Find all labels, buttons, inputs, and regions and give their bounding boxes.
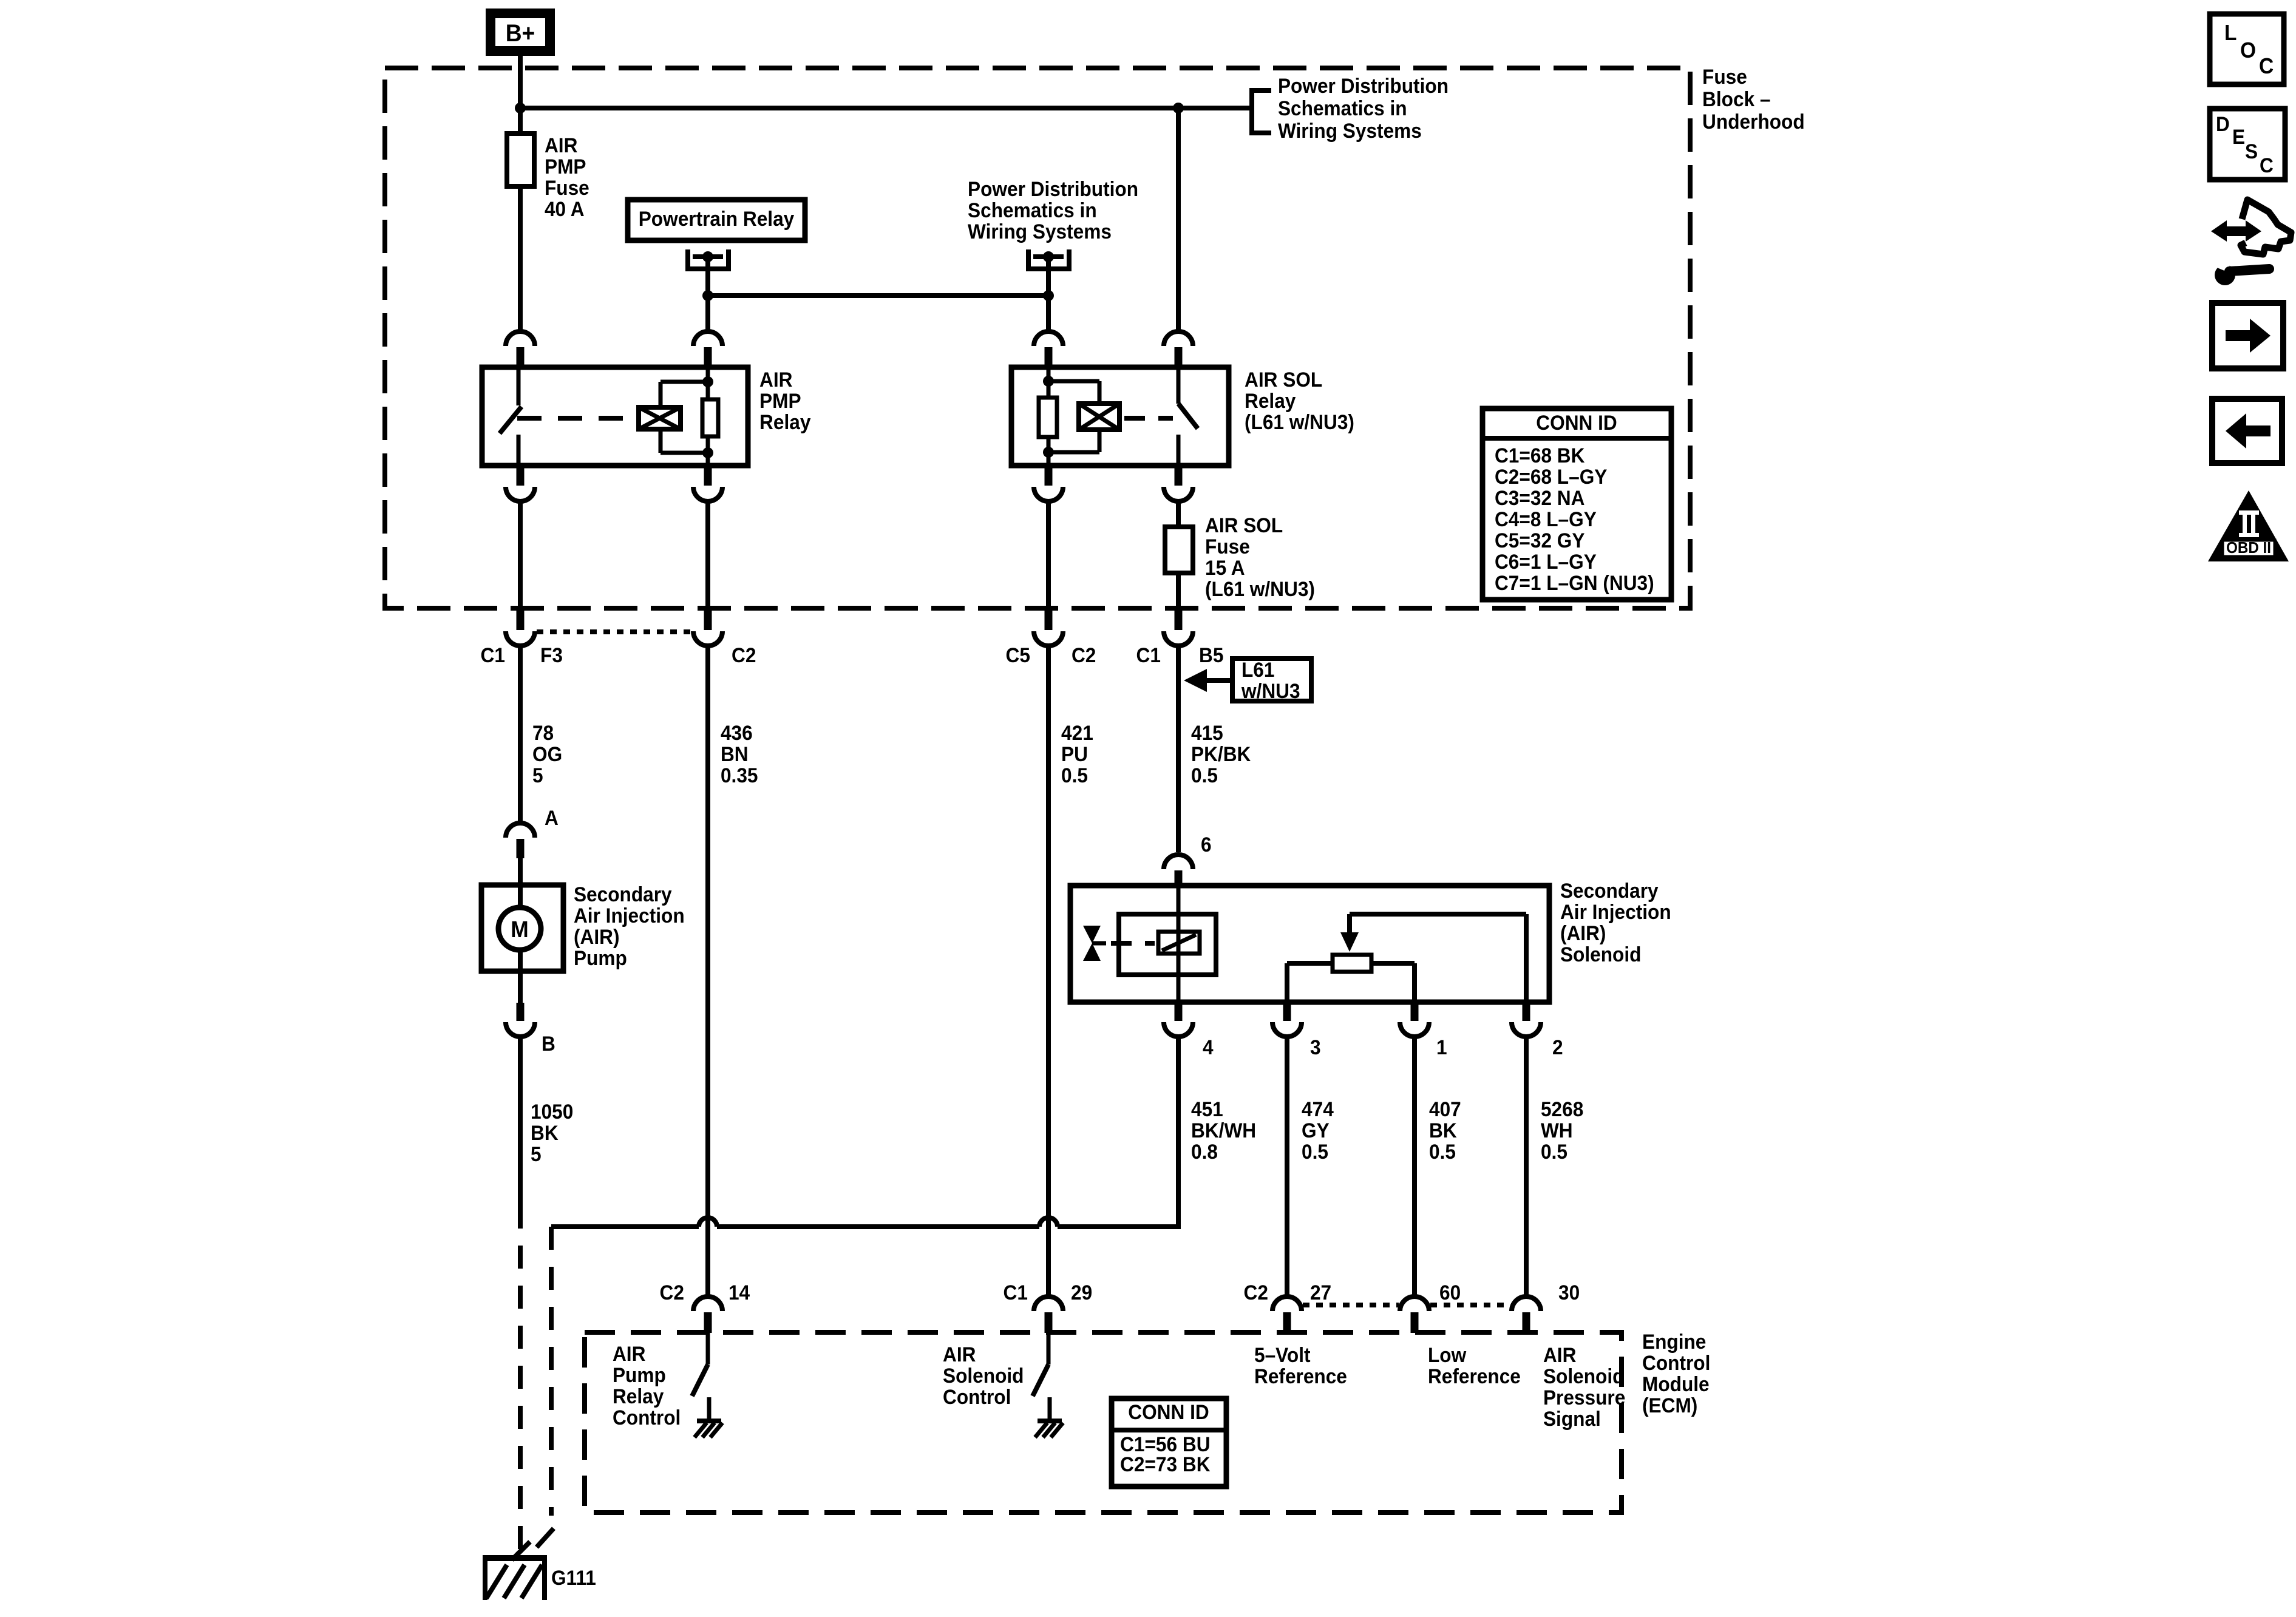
- wire4 down to AIR SOL relay: [1176, 108, 1181, 330]
- svg-text:GY: GY: [1302, 1119, 1330, 1142]
- svg-text:1050: 1050: [531, 1100, 573, 1123]
- branch fork under middle Power Distribution callout: [1026, 249, 1072, 271]
- pin label 4: [1203, 1036, 1214, 1059]
- wire junction rail to AIR SOL relay side: [708, 293, 1048, 298]
- wire1 to AIR pump: [518, 647, 523, 822]
- pin label 27: [1310, 1281, 1331, 1304]
- svg-text:B: B: [542, 1032, 555, 1055]
- svg-text:C1: C1: [1004, 1281, 1028, 1304]
- svg-text:Power Distribution: Power Distribution: [1278, 74, 1449, 97]
- svg-text:30: 30: [1558, 1281, 1580, 1304]
- connector wire2 at fuse block exit: [693, 611, 722, 646]
- switch in AIR SOL relay: [1178, 370, 1198, 463]
- svg-text:0.8: 0.8: [1191, 1140, 1218, 1163]
- svg-text:BK: BK: [1429, 1119, 1457, 1142]
- svg-text:Fuse: Fuse: [545, 176, 589, 199]
- connector ECM pin 27 (5-volt reference): [1272, 1297, 1302, 1333]
- connector arc wire4 out of AIR SOL relay: [1164, 466, 1193, 501]
- svg-text:Fuse: Fuse: [1702, 65, 1747, 88]
- svg-text:Air Injection: Air Injection: [1560, 900, 1671, 923]
- wire3 run to ECM: [1046, 647, 1051, 1295]
- svg-text:AIR: AIR: [1543, 1343, 1577, 1366]
- dotted connector link C1-F3 to C2: [537, 629, 691, 634]
- resistor in AIR SOL relay: [1039, 367, 1057, 466]
- svg-text:(AIR): (AIR): [1560, 921, 1606, 944]
- wire hop over wire2: [699, 1218, 717, 1227]
- pin label 3: [1310, 1036, 1321, 1059]
- relay coil actuator dashed line (AIR SOL): [1124, 416, 1173, 421]
- svg-text:Pump: Pump: [613, 1363, 666, 1386]
- label 5-Volt Reference: [1254, 1343, 1347, 1388]
- svg-text:AIR: AIR: [613, 1342, 646, 1365]
- svg-text:Fuse: Fuse: [1205, 535, 1250, 558]
- arrow L61 callout to wire4: [1184, 669, 1232, 692]
- svg-text:(L61 w/NU3): (L61 w/NU3): [1205, 577, 1315, 600]
- solenoid coil inner box: [1119, 914, 1216, 975]
- svg-text:O: O: [2240, 39, 2256, 63]
- svg-text:Low: Low: [1428, 1343, 1467, 1366]
- dotted link ECM pins 60-30: [1430, 1303, 1510, 1307]
- svg-text:27: 27: [1310, 1281, 1331, 1304]
- svg-text:S: S: [2245, 140, 2258, 163]
- label Fuse Block - Underhood: [1702, 65, 1805, 133]
- wire label 415 PK/BK 0.5: [1191, 721, 1251, 787]
- svg-text:C: C: [2260, 154, 2274, 177]
- pin label C2 (ECM 27): [1244, 1281, 1268, 1304]
- wire1 pump to ground run: [518, 1038, 523, 1205]
- wire B+ to AIR PMP fuse: [518, 56, 523, 135]
- potentiometer in solenoid: [1333, 955, 1371, 972]
- svg-text:0.5: 0.5: [1191, 764, 1218, 787]
- svg-text:Wiring Systems: Wiring Systems: [968, 220, 1112, 243]
- svg-text:A: A: [545, 806, 559, 829]
- svg-text:C5=32 GY: C5=32 GY: [1495, 529, 1585, 552]
- connector pin 3 out of solenoid: [1272, 1002, 1302, 1037]
- label Low Reference: [1428, 1343, 1521, 1388]
- connector pin 2 out of solenoid: [1512, 1002, 1541, 1037]
- svg-text:Relay: Relay: [613, 1385, 664, 1408]
- wire fuse to AIR PMP relay: [518, 186, 523, 330]
- pin label C2 (wire3): [1072, 643, 1096, 666]
- wire4 to AIR solenoid: [1176, 647, 1181, 852]
- svg-text:78: 78: [532, 721, 554, 744]
- svg-text:Pump: Pump: [574, 946, 627, 969]
- label AIR Pump Relay Control: [613, 1342, 681, 1429]
- off-page bracket to Power Distribution: [1252, 88, 1271, 135]
- wire4 relay to AIR SOL fuse: [1176, 501, 1181, 528]
- svg-text:WH: WH: [1541, 1119, 1573, 1142]
- svg-text:0.5: 0.5: [1302, 1140, 1328, 1163]
- fuse AIR PMP Fuse 40 A: [507, 134, 534, 186]
- svg-text:Engine: Engine: [1642, 1330, 1706, 1353]
- ground G111 symbol: [483, 1555, 547, 1600]
- pin label 14: [729, 1281, 750, 1304]
- svg-text:0.5: 0.5: [1061, 764, 1088, 787]
- connector arc wire3 out of AIR SOL relay: [1034, 466, 1063, 501]
- pin label B5 (wire4): [1199, 643, 1223, 666]
- pin label 1: [1436, 1036, 1447, 1059]
- svg-text:C2=73 BK: C2=73 BK: [1120, 1453, 1211, 1476]
- svg-text:L61: L61: [1241, 658, 1274, 681]
- switch and ground ECM pin 14 driver: [692, 1333, 722, 1437]
- svg-text:CONN ID: CONN ID: [1536, 411, 1617, 434]
- svg-text:G111: G111: [551, 1566, 596, 1589]
- svg-text:Schematics in: Schematics in: [968, 198, 1097, 222]
- svg-text:C6=1 L–GY: C6=1 L–GY: [1495, 550, 1597, 573]
- svg-text:Powertrain Relay: Powertrain Relay: [639, 207, 795, 230]
- svg-text:D: D: [2216, 112, 2230, 135]
- solenoid coil diagonal: [1162, 935, 1196, 951]
- connector arc wire3 into AIR SOL relay: [1034, 331, 1063, 368]
- svg-text:C: C: [2259, 55, 2274, 78]
- svg-text:C1=68 BK: C1=68 BK: [1495, 444, 1585, 467]
- pin label B (AIR pump): [542, 1032, 555, 1055]
- svg-text:C2: C2: [732, 643, 756, 666]
- svg-text:F3: F3: [540, 643, 563, 666]
- pin label C1 (wire4): [1136, 643, 1161, 666]
- svg-text:Reference: Reference: [1254, 1364, 1347, 1388]
- coil bracket wires (AIR SOL): [1048, 381, 1099, 452]
- svg-text:Secondary: Secondary: [1560, 879, 1659, 902]
- svg-text:Solenoid: Solenoid: [1543, 1364, 1624, 1388]
- svg-text:1: 1: [1436, 1036, 1447, 1059]
- power terminal B+: [491, 13, 550, 51]
- wire2 to AIR PMP relay: [705, 296, 710, 330]
- wire top feed rail: [520, 106, 1249, 110]
- label Secondary Air Injection (AIR) Solenoid: [1560, 879, 1671, 966]
- callout box Powertrain Relay: [628, 200, 805, 240]
- label Secondary Air Injection (AIR) Pump: [574, 883, 685, 969]
- svg-text:C2: C2: [1072, 643, 1096, 666]
- relay coil X-box (AIR PMP): [639, 407, 681, 429]
- pin label 6 (solenoid): [1201, 833, 1212, 856]
- svg-text:Solenoid: Solenoid: [943, 1364, 1024, 1387]
- svg-text:5: 5: [532, 764, 543, 787]
- svg-text:OBD II: OBD II: [2226, 539, 2271, 557]
- svg-text:Relay: Relay: [759, 410, 811, 433]
- svg-text:415: 415: [1191, 721, 1223, 744]
- pin label C2 (wire2): [732, 643, 756, 666]
- wire label 451 BK/WH 0.8: [1191, 1097, 1256, 1163]
- svg-text:Control: Control: [943, 1385, 1011, 1408]
- svg-text:Solenoid: Solenoid: [1560, 943, 1641, 966]
- switch in AIR PMP relay: [500, 370, 521, 463]
- svg-text:Underhood: Underhood: [1702, 110, 1805, 133]
- svg-text:Module: Module: [1642, 1372, 1710, 1395]
- svg-text:474: 474: [1302, 1097, 1334, 1120]
- solenoid pot left wire: [1287, 963, 1333, 1002]
- svg-text:Schematics in: Schematics in: [1278, 97, 1407, 120]
- wire label 5268 WH 0.5: [1541, 1097, 1583, 1163]
- svg-text:6: 6: [1201, 833, 1212, 856]
- svg-text:451: 451: [1191, 1097, 1223, 1120]
- svg-text:Reference: Reference: [1428, 1364, 1521, 1388]
- svg-text:BK: BK: [531, 1121, 559, 1144]
- svg-text:OG: OG: [532, 742, 562, 765]
- svg-text:0.5: 0.5: [1541, 1140, 1567, 1163]
- svg-text:C2: C2: [660, 1281, 684, 1304]
- svg-text:C2=68 L–GY: C2=68 L–GY: [1495, 465, 1608, 488]
- wire4 through solenoid: [1177, 887, 1181, 1002]
- svg-text:14: 14: [729, 1281, 750, 1304]
- svg-text:407: 407: [1429, 1097, 1461, 1120]
- wire 451 horizontal ground rail: [551, 1224, 1181, 1229]
- wire label 474 GY 0.5: [1302, 1097, 1334, 1163]
- connector arc wire1 into AIR PMP relay: [506, 331, 535, 368]
- fuse block dashed border (Fuse Block - Underhood): [385, 68, 1690, 608]
- svg-text:BN: BN: [721, 742, 749, 765]
- svg-text:PU: PU: [1061, 742, 1088, 765]
- wire fork to junction wire3: [1046, 257, 1051, 298]
- wire label 407 BK 0.5: [1429, 1097, 1461, 1163]
- svg-text:E: E: [2232, 125, 2245, 148]
- label AIR SOL Relay (L61 w/NU3): [1245, 368, 1354, 433]
- motor AIR pump box: [481, 885, 563, 971]
- valve symbol in solenoid: [1083, 926, 1106, 961]
- svg-text:Control: Control: [613, 1406, 681, 1429]
- svg-text:Pressure: Pressure: [1543, 1386, 1625, 1409]
- connector pin 1 out of solenoid: [1400, 1002, 1429, 1037]
- node junction to AIR SOL relay feed: [1173, 103, 1184, 114]
- svg-text:5: 5: [531, 1142, 542, 1165]
- wire AIR SOL fuse to fuse block edge: [1176, 573, 1181, 611]
- switch and ground ECM pin 29 driver: [1033, 1333, 1063, 1437]
- wire2 run to ECM: [705, 647, 710, 1295]
- relay coil actuator dashed line (AIR PMP): [517, 416, 636, 421]
- svg-text:29: 29: [1071, 1281, 1092, 1304]
- connector arc wire2 out of AIR PMP relay: [693, 466, 722, 501]
- svg-text:C1: C1: [481, 643, 505, 666]
- label Power Distribution Schematics in Wiring Systems (top): [1278, 74, 1449, 142]
- wire label 436 BN 0.35: [721, 721, 758, 787]
- resistor in AIR PMP relay: [702, 367, 718, 466]
- svg-text:PMP: PMP: [545, 155, 586, 178]
- svg-text:15 A: 15 A: [1205, 556, 1245, 579]
- fuse AIR SOL Fuse 15 A: [1165, 527, 1193, 573]
- pin label 30: [1558, 1281, 1580, 1304]
- connector arc wire1 out of AIR PMP relay: [506, 466, 535, 501]
- connector ECM pin 14 (AIR pump relay control): [693, 1297, 722, 1333]
- icon vehicle with two-way arrow and wrench: [2211, 200, 2291, 285]
- svg-text:Wiring Systems: Wiring Systems: [1278, 119, 1422, 142]
- pin label 2: [1552, 1036, 1563, 1059]
- pin label C2 (ECM 14): [660, 1281, 684, 1304]
- svg-text:(L61 w/NU3): (L61 w/NU3): [1245, 410, 1354, 433]
- label AIR Solenoid Control: [943, 1343, 1024, 1408]
- wire label 78 OG 5: [532, 721, 562, 787]
- svg-text:AIR SOL: AIR SOL: [1245, 368, 1322, 391]
- node junction wire3: [1043, 290, 1054, 301]
- svg-text:Relay: Relay: [1245, 389, 1296, 412]
- wire label 421 PU 0.5: [1061, 721, 1093, 787]
- solenoid AIR solenoid box: [1070, 886, 1549, 1002]
- svg-text:421: 421: [1061, 721, 1093, 744]
- svg-text:5–Volt: 5–Volt: [1254, 1343, 1311, 1366]
- wire 1050 dashed drop to ground: [518, 1205, 523, 1551]
- node junction at B+ feed: [515, 103, 526, 114]
- svg-text:Secondary: Secondary: [574, 883, 672, 906]
- wire label 1050 BK 5: [531, 1100, 573, 1165]
- svg-text:C1: C1: [1136, 643, 1161, 666]
- svg-text:B5: B5: [1199, 643, 1223, 666]
- svg-text:Signal: Signal: [1543, 1407, 1601, 1430]
- label AIR PMP Relay: [759, 368, 811, 433]
- icon forward arrow box: [2212, 303, 2283, 368]
- svg-text:Power Distribution: Power Distribution: [968, 177, 1138, 200]
- connector wire1 at fuse block exit: [506, 611, 535, 646]
- svg-text:AIR SOL: AIR SOL: [1205, 514, 1283, 537]
- pin label C1 (ECM 29): [1004, 1281, 1028, 1304]
- connector wire4 at fuse block exit: [1164, 611, 1193, 646]
- svg-text:PMP: PMP: [759, 389, 801, 412]
- label AIR Solenoid Pressure Signal: [1543, 1343, 1625, 1430]
- svg-text:C4=8 L–GY: C4=8 L–GY: [1495, 507, 1597, 531]
- node junction wire2: [702, 290, 713, 301]
- pin label C5 (wire3): [1006, 643, 1030, 666]
- wiper arrow in solenoid: [1340, 932, 1359, 952]
- icon LOC box: [2210, 14, 2284, 84]
- svg-text:PK/BK: PK/BK: [1191, 742, 1251, 765]
- motor symbol M circle: [498, 907, 541, 950]
- svg-text:AIR: AIR: [943, 1343, 976, 1366]
- pin label 60: [1439, 1281, 1461, 1304]
- wire pin4 down to ground rail: [1176, 1038, 1181, 1227]
- svg-text:436: 436: [721, 721, 753, 744]
- svg-text:AIR: AIR: [545, 134, 578, 157]
- connector ECM pin 60 (low reference): [1400, 1297, 1429, 1333]
- wire out of AIR pump box: [518, 950, 523, 1003]
- solenoid actuator dashed line: [1111, 941, 1155, 946]
- pin label 29: [1071, 1281, 1092, 1304]
- svg-text:L: L: [2224, 21, 2237, 45]
- svg-text:0.5: 0.5: [1429, 1140, 1456, 1163]
- pin label F3 (wire1): [540, 643, 563, 666]
- svg-text:(ECM): (ECM): [1642, 1394, 1697, 1417]
- svg-text:0.35: 0.35: [721, 764, 758, 787]
- module ECM dashed border: [585, 1332, 1622, 1513]
- wire pins 3-1-2 to ECM: [1287, 1038, 1526, 1295]
- relay AIR PMP Relay box: [482, 367, 748, 466]
- icon back arrow box: [2212, 399, 2282, 463]
- ground slash at G111: [512, 1542, 530, 1560]
- wire3 relay to fuse block edge: [1046, 501, 1051, 611]
- svg-text:C7=1 L–GN (NU3): C7=1 L–GN (NU3): [1495, 571, 1654, 594]
- label AIR SOL Fuse 15 A (L61 w/NU3): [1205, 514, 1315, 600]
- pin label A (AIR pump): [545, 806, 559, 829]
- svg-text:4: 4: [1203, 1036, 1214, 1059]
- svg-text:Air Injection: Air Injection: [574, 904, 685, 927]
- connector pin 4 out of solenoid: [1164, 1002, 1193, 1037]
- svg-text:C3=32 NA: C3=32 NA: [1495, 486, 1584, 509]
- branch fork under Powertrain Relay: [685, 249, 731, 271]
- connector arc into AIR solenoid: [1164, 855, 1193, 887]
- svg-text:40 A: 40 A: [545, 197, 585, 220]
- wire1 relay to fuse block edge: [518, 501, 523, 611]
- connector arc wire2 into AIR PMP relay: [693, 331, 722, 368]
- svg-text:CONN ID: CONN ID: [1128, 1400, 1209, 1423]
- connector arc into AIR pump: [506, 823, 535, 858]
- svg-text:3: 3: [1310, 1036, 1321, 1059]
- wire 451 dashed drop to ground: [549, 1227, 554, 1516]
- connector ECM pin 30 (AIR solenoid pressure signal): [1512, 1297, 1541, 1333]
- wire into AIR pump box: [518, 858, 523, 909]
- solenoid pin2 internal wire: [1350, 914, 1526, 1002]
- dotted link ECM pins 27-60: [1303, 1303, 1399, 1307]
- svg-text:2: 2: [1552, 1036, 1563, 1059]
- label Power Distribution Schematics in Wiring Systems (middle): [968, 177, 1138, 243]
- relay AIR SOL Relay box: [1011, 367, 1229, 466]
- solenoid coil symbol: [1158, 932, 1200, 954]
- relay coil X-box (AIR SOL): [1079, 404, 1119, 430]
- wire2 relay to fuse block edge: [705, 501, 710, 611]
- svg-text:BK/WH: BK/WH: [1191, 1119, 1256, 1142]
- svg-text:w/NU3: w/NU3: [1241, 679, 1300, 702]
- wire 451 dashed diagonal to ground: [537, 1528, 554, 1547]
- label G111: [551, 1566, 596, 1589]
- svg-text:Control: Control: [1642, 1351, 1710, 1374]
- connector ECM pin 29 (AIR solenoid control): [1034, 1297, 1063, 1333]
- pin label C1 (wire1): [481, 643, 505, 666]
- label AIR PMP Fuse 40 A: [545, 134, 589, 220]
- svg-text:C2: C2: [1244, 1281, 1268, 1304]
- svg-text:C5: C5: [1006, 643, 1030, 666]
- table CONN ID (fuse block): [1483, 408, 1671, 600]
- svg-text:B+: B+: [506, 20, 535, 47]
- svg-text:Block –: Block –: [1702, 87, 1770, 110]
- icon OBD II triangle: [2208, 490, 2289, 561]
- svg-text:AIR: AIR: [759, 368, 793, 391]
- table CONN ID (ECM): [1112, 1398, 1226, 1486]
- svg-text:(AIR): (AIR): [574, 925, 620, 948]
- wire3 down to AIR SOL relay: [1046, 296, 1051, 330]
- connector arc out of AIR pump: [506, 1003, 535, 1037]
- connector arc wire4 into AIR SOL relay: [1164, 331, 1193, 368]
- wire fork to junction: [705, 257, 710, 298]
- svg-text:60: 60: [1439, 1281, 1461, 1304]
- svg-text:M: M: [511, 917, 528, 942]
- connector wire3 at fuse block exit: [1034, 611, 1063, 646]
- wire hop over wire3: [1039, 1218, 1058, 1227]
- callout box L61 w/NU3: [1232, 658, 1311, 702]
- solenoid pot right wire: [1371, 963, 1415, 1002]
- svg-text:5268: 5268: [1541, 1097, 1583, 1120]
- label Engine Control Module (ECM): [1642, 1330, 1710, 1417]
- icon DESC box: [2210, 109, 2285, 180]
- coil bracket wires (AIR PMP): [661, 376, 713, 458]
